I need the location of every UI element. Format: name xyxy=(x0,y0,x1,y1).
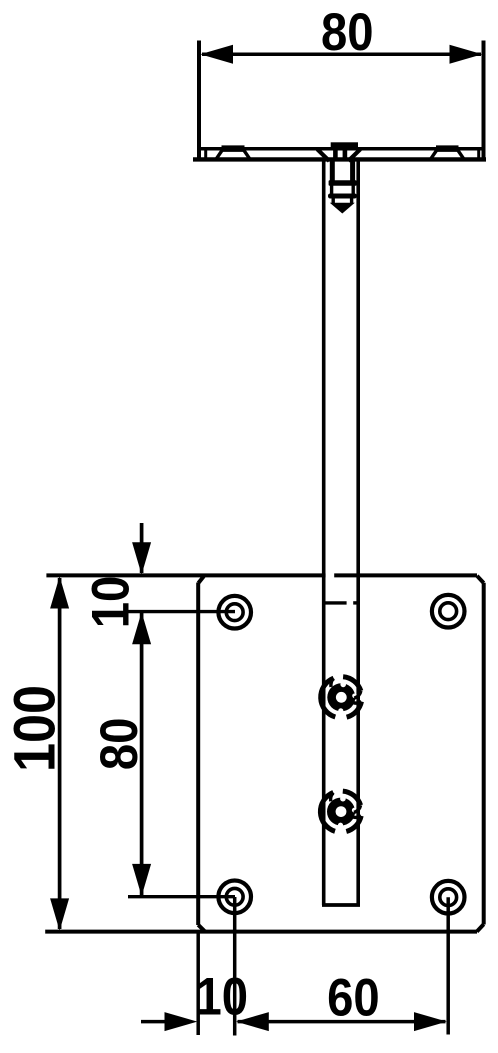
slot top tick inside bar xyxy=(326,601,347,604)
svg-text:10: 10 xyxy=(196,967,249,1026)
carriage screw upper xyxy=(321,677,362,717)
hanger bolt tip V xyxy=(330,203,355,214)
hanger bolt band 1 xyxy=(329,180,357,186)
arrowhead right (top 80) xyxy=(450,45,483,64)
right rim tick xyxy=(477,147,480,159)
hole top-left inner xyxy=(226,604,243,621)
top plate inner shelf line xyxy=(199,147,484,151)
left countersunk hole slants xyxy=(216,150,249,159)
hanger bolt body sides xyxy=(332,161,352,183)
arrowhead left (60) xyxy=(236,1012,269,1031)
left rim tick xyxy=(204,147,207,159)
bottom plate bottom-left chamfer xyxy=(198,925,205,932)
vertical bar bottom edge xyxy=(322,903,360,907)
hole top-left outer xyxy=(218,596,251,629)
arrowhead up (80 left) xyxy=(132,612,151,644)
top plate left wall / extension line xyxy=(197,41,201,162)
arrowhead left (top 80) xyxy=(200,45,233,64)
hanger bolt tip sides xyxy=(333,198,351,204)
bottom plate bottom edge + extension xyxy=(45,930,477,934)
hole top-right outer xyxy=(432,595,465,628)
bottom dimension line tail (10) xyxy=(141,1020,166,1024)
hole bottom-right inner xyxy=(440,889,457,906)
arrowhead down (80 left) xyxy=(132,864,151,896)
extension line through bottom-left hole xyxy=(128,895,235,898)
dimension line 80 (top) xyxy=(202,53,481,57)
top plate right wall / extension line xyxy=(482,41,486,162)
svg-text:80: 80 xyxy=(321,3,374,62)
bottom extension line from bottom-right hole xyxy=(446,897,450,1034)
bottom plate top-left chamfer xyxy=(198,576,203,583)
slot top tick dot xyxy=(353,601,357,604)
carriage screw lower xyxy=(320,791,361,831)
extension line through top-left hole xyxy=(127,610,235,613)
top plate bottom edge xyxy=(193,157,486,161)
center screw cap above shelf xyxy=(331,142,358,147)
bottom plate right edge xyxy=(482,583,486,925)
hole bottom-left outer xyxy=(218,881,251,914)
hole bottom-right outer xyxy=(432,881,465,914)
bottom extension line from bottom-left hole xyxy=(233,897,237,1036)
dimension line 10 upper segment (left) xyxy=(140,523,144,573)
svg-text:100: 100 xyxy=(2,685,67,772)
bottom plate bottom-right chamfer xyxy=(477,924,484,931)
bottom plate left edge xyxy=(196,583,200,926)
arrowhead down (100) xyxy=(50,898,69,930)
dimension line 80 (left) xyxy=(140,613,144,895)
dimension line 100 (left) xyxy=(58,578,62,929)
arrowhead up (100) xyxy=(50,576,69,608)
bottom plate top-right chamfer xyxy=(477,576,484,583)
arrowhead down to plate top (10) xyxy=(132,542,151,574)
right countersunk hole slants xyxy=(431,150,464,159)
svg-text:80: 80 xyxy=(90,718,149,771)
hanger bolt band 2 xyxy=(328,194,357,199)
dimension line 60 (bottom) xyxy=(238,1020,446,1024)
hole top-right inner xyxy=(440,603,457,620)
vertical bar left edge xyxy=(322,161,326,905)
center screw slot bars xyxy=(333,148,338,161)
svg-text:60: 60 xyxy=(327,968,380,1027)
arrowhead right outside (10 bottom) xyxy=(165,1012,198,1031)
svg-text:10: 10 xyxy=(81,576,140,629)
hole bottom-left inner xyxy=(226,888,243,905)
right countersunk hole band xyxy=(436,145,459,152)
bottom extension line from plate left edge xyxy=(196,932,200,1035)
vertical bar right edge xyxy=(356,161,360,905)
bottom plate top edge + extension xyxy=(46,573,477,577)
center countersink slants xyxy=(317,149,360,161)
arrowhead right (60) xyxy=(414,1012,447,1031)
hanger bolt neck lines xyxy=(332,186,354,195)
left countersunk hole band xyxy=(222,145,245,152)
